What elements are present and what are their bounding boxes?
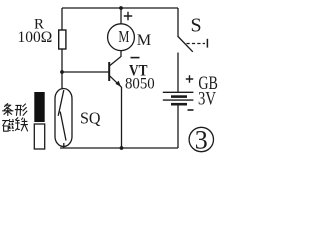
label tiao 条 (2, 103, 13, 116)
svg-text:S: S (191, 15, 202, 37)
motor M circle (108, 24, 135, 51)
battery GB plate short 1 (171, 95, 187, 98)
wire left rail lower (61, 49, 63, 90)
reed switch SQ contact lower (60, 112, 66, 141)
wire bottom horizontal (60, 147, 178, 149)
battery GB plate long 2 (163, 99, 194, 101)
transistor VT base bar (108, 62, 110, 81)
switch S blade (178, 37, 193, 52)
reed switch SQ contact upper (58, 90, 64, 116)
junction dot bottom (120, 146, 124, 150)
resistor R (59, 30, 66, 49)
svg-text:3V: 3V (198, 88, 216, 109)
reed switch SQ capsule (55, 89, 72, 147)
annotation circle 3 (189, 127, 213, 151)
switch S button bar (206, 39, 208, 48)
label ci 磁 (2, 119, 14, 131)
bar magnet north black (34, 92, 44, 122)
svg-text:3: 3 (195, 125, 208, 154)
wire top horizontal (62, 7, 178, 9)
polarity minus motor (131, 57, 140, 59)
transistor VT emitter arrowhead (115, 81, 121, 87)
svg-text:M: M (118, 27, 129, 46)
svg-text:8050: 8050 (125, 76, 155, 93)
wire right rail bottom (177, 105, 179, 148)
wire motor top lead (120, 8, 122, 24)
polarity plus battery (186, 75, 193, 82)
junction dot top (119, 6, 123, 10)
wire right rail upper (177, 8, 179, 37)
polarity minus battery (188, 109, 194, 111)
bar magnet south white (34, 124, 44, 149)
transistor VT emitter arm (110, 76, 122, 87)
wire SQ bottom stub (63, 143, 65, 148)
svg-text:M: M (137, 31, 151, 49)
battery GB plate short 2 (171, 103, 187, 106)
svg-text:SQ: SQ (80, 109, 101, 128)
label xing 形 (15, 104, 27, 116)
svg-text:100Ω: 100Ω (18, 29, 53, 46)
switch S actuator dashed (187, 43, 206, 45)
wire motor bottom lead to collector (110, 51, 121, 66)
wire left rail upper (61, 8, 63, 30)
battery GB plate long 1 (163, 91, 194, 93)
label tie 铁 (15, 117, 28, 131)
junction dot base (60, 70, 64, 74)
wire base horizontal (62, 71, 109, 73)
polarity plus motor (124, 12, 132, 20)
wire emitter down (121, 87, 123, 148)
wire right rail mid (177, 53, 179, 93)
